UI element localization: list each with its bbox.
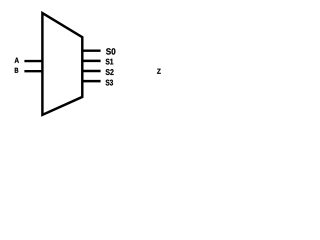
wire input A (24, 60, 42, 62)
label S3 (106, 80, 113, 86)
node Z (157, 69, 161, 74)
label S0 (106, 48, 115, 54)
wire input B (24, 70, 42, 72)
label S2 (106, 69, 114, 75)
wire output S3 (82, 80, 100, 82)
multiplexer U1 body (42, 13, 82, 115)
wire output S0 (82, 49, 100, 51)
label S1 (106, 59, 114, 65)
label B (15, 68, 18, 73)
wire output S1 (82, 60, 100, 62)
wire output S2 (82, 70, 100, 72)
label A (15, 58, 19, 63)
